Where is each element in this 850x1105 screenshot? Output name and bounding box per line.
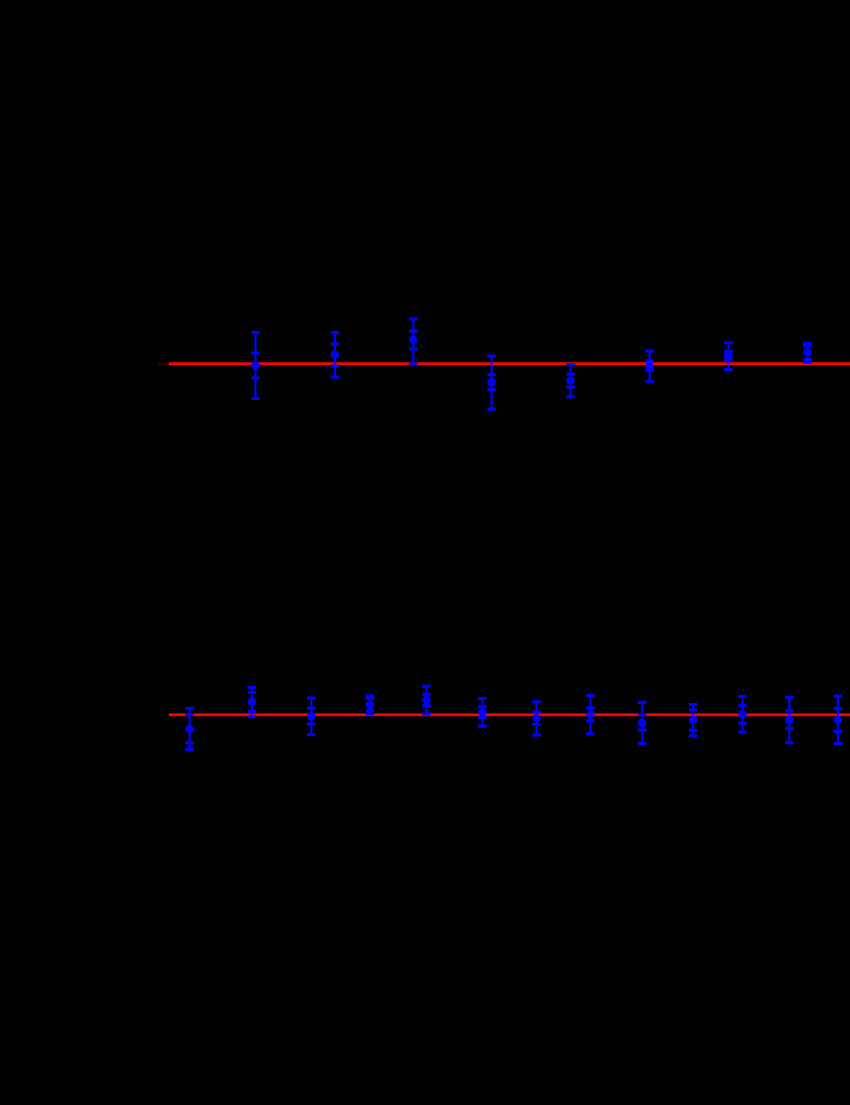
data point T1: error bars and marker: [251, 331, 260, 400]
data point T2: error bars and marker: [331, 331, 340, 379]
data point B2: error bars and marker: [248, 686, 257, 719]
data point B6: error bars and marker: [478, 697, 487, 728]
data point B12: error bars and marker: [785, 696, 794, 745]
data point B7: error bars and marker: [532, 700, 541, 736]
data point B10: error bars and marker: [689, 703, 698, 738]
data point T5: error bars and marker: [566, 363, 575, 398]
data point B11: error bars and marker: [738, 695, 747, 734]
data point T8: error bars and marker: [803, 342, 812, 364]
data point B4: error bars and marker: [366, 694, 375, 715]
data point B13: error bars and marker: [834, 695, 843, 746]
data point T6: error bars and marker: [645, 349, 654, 382]
data point B1: error bars and marker: [185, 707, 194, 751]
data point B9: error bars and marker: [638, 701, 647, 745]
data point T7: error bars and marker: [724, 341, 733, 371]
bottom panel: red fit line: [169, 713, 850, 716]
data point B3: error bars and marker: [307, 697, 316, 737]
data point T3: error bars and marker: [409, 317, 418, 365]
top panel: faint fit-line stub left of axis: [158, 363, 169, 365]
top panel: red fit line: [169, 362, 850, 365]
data point B8: error bars and marker: [586, 694, 595, 736]
data point B5: error bars and marker: [422, 685, 431, 716]
data point T4: error bars and marker: [487, 355, 496, 411]
